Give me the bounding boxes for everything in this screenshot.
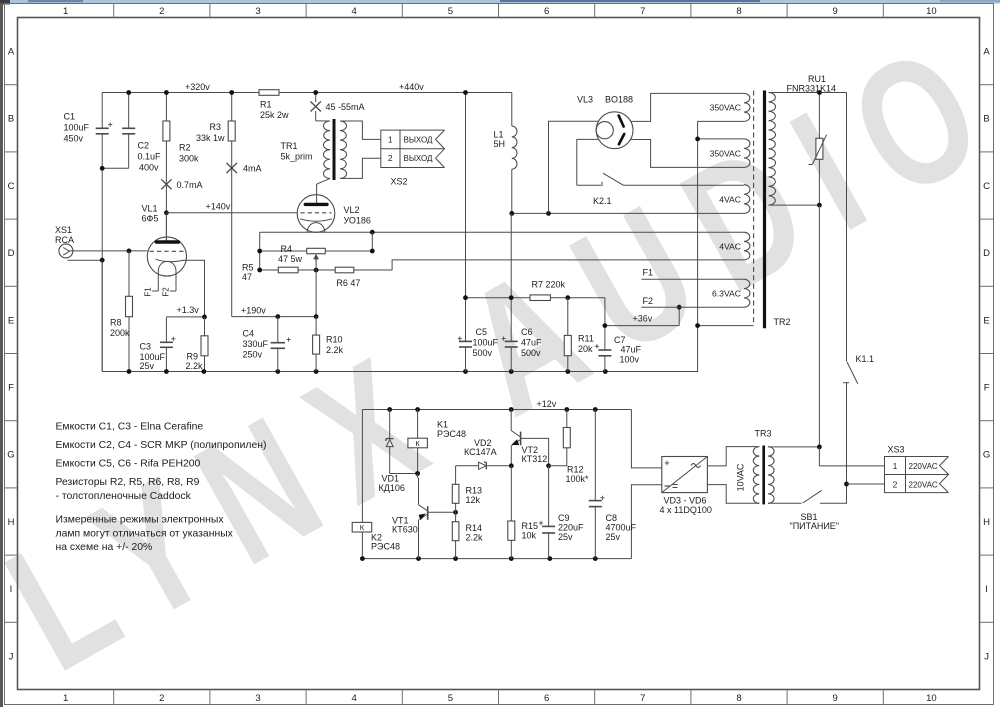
svg-text:VL3: VL3 bbox=[577, 95, 593, 105]
wire VL3 anode2 to 350VAC#2 bbox=[631, 140, 744, 168]
transformer TR2 winding 6.3VAC (6.3VAC heater) bbox=[744, 279, 750, 307]
window chrome strip bbox=[0, 0, 1000, 4]
switch K2.1 bbox=[577, 184, 601, 186]
svg-text:10k: 10k bbox=[522, 531, 537, 541]
diode VD1 bbox=[389, 410, 391, 439]
svg-text:7: 7 bbox=[640, 693, 645, 704]
svg-text:A: A bbox=[8, 47, 15, 58]
svg-text:+440v: +440v bbox=[399, 82, 424, 92]
svg-text:2.2k: 2.2k bbox=[466, 533, 484, 543]
svg-text:RU1: RU1 bbox=[808, 74, 826, 84]
svg-text:47 5w: 47 5w bbox=[278, 254, 303, 264]
svg-text:5H: 5H bbox=[494, 139, 506, 149]
svg-text:300k: 300k bbox=[179, 154, 199, 164]
svg-text:C2: C2 bbox=[138, 141, 150, 151]
wire +12v rail bbox=[362, 409, 631, 411]
resistor R3 bbox=[231, 93, 233, 122]
svg-text:5: 5 bbox=[448, 6, 453, 17]
svg-text:R12: R12 bbox=[567, 465, 584, 475]
svg-text:C1: C1 bbox=[64, 112, 76, 122]
svg-text:5k_prim: 5k_prim bbox=[281, 152, 313, 162]
svg-text:100uF: 100uF bbox=[64, 123, 90, 133]
connector XS3 bbox=[885, 457, 949, 493]
connector XS2 bbox=[381, 130, 445, 167]
svg-text:8: 8 bbox=[736, 6, 741, 17]
transformer TR2 winding 4VAC (4VAC output filament) bbox=[744, 232, 750, 260]
capacitor C3 bbox=[165, 317, 167, 342]
wire left HV column bbox=[101, 93, 103, 129]
resistor R13 bbox=[455, 466, 457, 485]
svg-text:1: 1 bbox=[63, 6, 68, 17]
svg-text:FNR331K14: FNR331K14 bbox=[787, 84, 837, 94]
svg-text:330uF: 330uF bbox=[243, 339, 269, 349]
wire +140v coupling to VL2 grid bbox=[166, 212, 297, 214]
svg-text:K1.1: K1.1 bbox=[856, 354, 875, 364]
svg-text:VD3 - VD6: VD3 - VD6 bbox=[664, 496, 707, 506]
switch SB1 bbox=[768, 502, 801, 504]
svg-text:R13: R13 bbox=[466, 486, 483, 496]
svg-text:7: 7 bbox=[640, 6, 645, 17]
capacitor C4 bbox=[277, 317, 279, 343]
svg-text:I: I bbox=[10, 584, 13, 595]
svg-text:C: C bbox=[8, 181, 15, 192]
transformer TR2 screen (dashed) bbox=[753, 91, 755, 323]
svg-text:3: 3 bbox=[255, 6, 260, 17]
svg-text:R8: R8 bbox=[110, 318, 122, 328]
wire TR3 secondary to rectifier bbox=[707, 447, 759, 466]
resistor R12 bbox=[566, 410, 568, 428]
svg-text:33k 1w: 33k 1w bbox=[196, 133, 225, 143]
wire VL3 anode1 to 350VAC#1 bbox=[631, 93, 744, 121]
resistor R11 bbox=[567, 298, 569, 336]
svg-text:РЭС48: РЭС48 bbox=[437, 429, 466, 439]
svg-text:6: 6 bbox=[544, 6, 549, 17]
capacitor C2 bbox=[128, 93, 130, 129]
wire VL2 cathode to R4 row bbox=[371, 232, 373, 251]
tube VL2 anode plate bbox=[305, 203, 327, 206]
svg-text:"ПИТАНИЕ": "ПИТАНИЕ" bbox=[790, 521, 840, 531]
wire network left leg bbox=[259, 232, 261, 270]
capacitor C1 bbox=[96, 127, 109, 129]
resistor R15 bbox=[510, 466, 512, 521]
resistor R8 bbox=[128, 251, 130, 296]
tube VL3 cathode circle bbox=[596, 122, 613, 139]
svg-text:B: B bbox=[8, 114, 14, 125]
svg-text:47uF: 47uF bbox=[621, 345, 642, 355]
svg-text:BO188: BO188 bbox=[605, 95, 633, 105]
resistor R7 bbox=[530, 295, 550, 301]
svg-text:+140v: +140v bbox=[206, 202, 231, 212]
svg-text:25v: 25v bbox=[606, 532, 621, 542]
svg-text:6Ф5: 6Ф5 bbox=[142, 214, 159, 224]
svg-text:9: 9 bbox=[833, 6, 838, 17]
tube VL2 envelope bbox=[297, 195, 335, 233]
svg-text:C3: C3 bbox=[140, 342, 152, 352]
svg-text:2: 2 bbox=[159, 693, 164, 704]
svg-text:F1: F1 bbox=[144, 287, 153, 297]
transformer TR3 core bbox=[762, 446, 765, 505]
svg-text:TR1: TR1 bbox=[281, 141, 298, 151]
tube VL1 anode plate bbox=[156, 240, 178, 243]
svg-text:Измеренные режимы электронных: Измеренные режимы электронных bbox=[56, 515, 225, 526]
svg-text:H: H bbox=[983, 517, 990, 528]
svg-text:RCA: RCA bbox=[55, 235, 74, 245]
svg-text:К: К bbox=[415, 439, 420, 448]
capacitor C6 bbox=[510, 298, 512, 342]
svg-text:K1: K1 bbox=[437, 420, 448, 430]
svg-text:350VAC: 350VAC bbox=[710, 148, 741, 158]
svg-text:+190v: +190v bbox=[241, 306, 266, 316]
svg-text:400v: 400v bbox=[139, 163, 159, 173]
wire control bottom rail bbox=[362, 558, 631, 560]
tube VL3 anode 2 bbox=[619, 134, 624, 144]
svg-text:R4: R4 bbox=[281, 244, 293, 254]
rectifier VD3-VD6 bbox=[662, 457, 708, 493]
svg-text:10: 10 bbox=[926, 6, 937, 17]
tube VL2 cathode arc bbox=[300, 219, 332, 221]
svg-text:К: К bbox=[360, 523, 365, 532]
svg-text:на схеме на +/- 20%: на схеме на +/- 20% bbox=[56, 542, 153, 553]
svg-text:2: 2 bbox=[388, 153, 393, 163]
varistor RU1 bbox=[818, 93, 820, 139]
relay coil K2 bbox=[352, 522, 372, 532]
svg-text:XS2: XS2 bbox=[391, 177, 408, 187]
svg-text:12k: 12k bbox=[466, 495, 481, 505]
svg-text:20k: 20k bbox=[578, 344, 593, 354]
svg-text:47: 47 bbox=[242, 272, 252, 282]
relay coil K1 bbox=[417, 410, 419, 439]
wire VL1 grid lead bbox=[70, 250, 148, 252]
svg-text:ВЫХОД: ВЫХОД bbox=[404, 154, 434, 163]
test point 4mA bbox=[227, 163, 237, 173]
svg-text:J: J bbox=[9, 651, 14, 662]
svg-text:D: D bbox=[8, 248, 15, 259]
svg-text:R5: R5 bbox=[242, 263, 254, 273]
resistor R2 bbox=[165, 93, 167, 122]
wire heater elevation F2 branch bbox=[678, 307, 680, 325]
svg-text:K2.1: K2.1 bbox=[593, 196, 612, 206]
svg-text:A: A bbox=[983, 47, 990, 58]
wire mains line A (XS3 pin1) bbox=[818, 205, 820, 447]
svg-text:F: F bbox=[8, 383, 14, 394]
wire 350VAC#1 bottom to CT bbox=[698, 121, 744, 372]
svg-text:КД106: КД106 bbox=[379, 483, 405, 493]
svg-text:F1: F1 bbox=[643, 268, 654, 278]
svg-text:250v: 250v bbox=[243, 350, 263, 360]
svg-text:F: F bbox=[984, 383, 990, 394]
svg-text:КС147А: КС147А bbox=[464, 447, 497, 457]
resistor R9 bbox=[204, 317, 206, 336]
svg-text:450v: 450v bbox=[64, 134, 84, 144]
svg-text:VD1: VD1 bbox=[382, 474, 400, 484]
svg-text:R3: R3 bbox=[209, 122, 221, 132]
svg-text:25v: 25v bbox=[558, 532, 573, 542]
transformer TR2 core bbox=[763, 91, 766, 329]
connector XS1 RCA bbox=[59, 244, 73, 258]
transistor VT1 bbox=[417, 474, 419, 479]
resistor R6 bbox=[335, 267, 354, 273]
wire VT2 base bbox=[521, 438, 549, 465]
svg-text:220uF: 220uF bbox=[558, 523, 584, 533]
svg-text:F2: F2 bbox=[643, 296, 654, 306]
capacitor C5 bbox=[465, 298, 467, 342]
capacitor C8 bbox=[594, 410, 596, 501]
transformer TR2 winding 350VAC (350VAC lower) bbox=[744, 139, 750, 168]
tube VL2 filament bbox=[307, 223, 325, 233]
svg-text:47uF: 47uF bbox=[521, 337, 542, 347]
svg-text:B: B bbox=[983, 114, 989, 125]
svg-text:C4: C4 bbox=[243, 329, 255, 339]
wire R4 wiper to +190v bbox=[315, 259, 317, 317]
svg-text:ВЫХОД: ВЫХОД bbox=[404, 136, 434, 145]
wire C6 column bbox=[510, 213, 512, 297]
svg-text:КТ630: КТ630 bbox=[392, 525, 418, 535]
svg-text:5: 5 bbox=[448, 693, 453, 704]
left window edge bbox=[0, 3, 3, 707]
svg-text:G: G bbox=[983, 450, 990, 461]
svg-text:C5: C5 bbox=[476, 327, 488, 337]
svg-text:R11: R11 bbox=[578, 334, 594, 344]
svg-text:2.2k: 2.2k bbox=[186, 361, 204, 371]
wire control left leg bbox=[361, 410, 363, 559]
svg-text:6.3VAC: 6.3VAC bbox=[712, 288, 741, 298]
svg-text:H: H bbox=[8, 517, 15, 528]
svg-text:КТ312: КТ312 bbox=[522, 454, 548, 464]
svg-text:4700uF: 4700uF bbox=[606, 523, 637, 533]
svg-text:J: J bbox=[984, 651, 989, 662]
wire +190v bbox=[232, 316, 316, 318]
tube VL1 envelope bbox=[147, 237, 186, 276]
svg-text:3: 3 bbox=[255, 693, 260, 704]
svg-text:TR2: TR2 bbox=[774, 317, 791, 327]
inductor L1 bbox=[511, 93, 513, 127]
svg-text:VL2: VL2 bbox=[344, 205, 360, 215]
svg-text:+1.3v: +1.3v bbox=[177, 305, 200, 315]
potentiometer R4 bbox=[260, 250, 307, 252]
wire R7 row bbox=[466, 297, 531, 299]
resistor R10 bbox=[315, 317, 317, 336]
transformer TR2 primary bbox=[769, 93, 776, 206]
svg-text:+12v: +12v bbox=[537, 399, 557, 409]
svg-text:9: 9 bbox=[833, 693, 838, 704]
svg-text:R10: R10 bbox=[326, 335, 343, 345]
svg-text:220VAC: 220VAC bbox=[909, 462, 938, 471]
svg-text:R14: R14 bbox=[466, 523, 483, 533]
transformer TR1 primary bbox=[316, 120, 330, 122]
wire VL2 cathode bus bbox=[260, 231, 744, 233]
transformer TR1 secondary bbox=[340, 121, 347, 178]
svg-text:R15: R15 bbox=[522, 521, 539, 531]
svg-text:R6 47: R6 47 bbox=[336, 278, 360, 288]
svg-text:+36v: +36v bbox=[633, 314, 653, 324]
wire VL1 anode to +140v node bbox=[165, 213, 167, 241]
svg-text:100uF: 100uF bbox=[473, 337, 499, 347]
svg-text:2.2k: 2.2k bbox=[326, 345, 344, 355]
svg-text:220VAC: 220VAC bbox=[909, 480, 938, 489]
svg-text:8: 8 bbox=[736, 693, 741, 704]
test point 0.7mA bbox=[161, 179, 171, 189]
svg-text:D: D bbox=[983, 248, 990, 259]
svg-text:1: 1 bbox=[893, 461, 898, 471]
wire XS1 shell bbox=[68, 259, 103, 261]
svg-text:Емкости C5, C6 - Rifa PEH200: Емкости C5, C6 - Rifa PEH200 bbox=[56, 458, 201, 469]
wire TR1 primary bottom to VL2 anode bbox=[317, 178, 330, 203]
svg-text:500v: 500v bbox=[521, 348, 541, 358]
tube VL1 filament bbox=[158, 261, 176, 271]
transistor VT2 bbox=[510, 410, 512, 431]
svg-text:100v: 100v bbox=[620, 355, 640, 365]
svg-text:Резисторы R2, R5, R6, R8, R9: Резисторы R2, R5, R6, R8, R9 bbox=[56, 477, 200, 488]
svg-text:350VAC: 350VAC bbox=[710, 103, 741, 113]
wire TR3 primary top bbox=[768, 446, 819, 448]
wire +440 feed column bbox=[465, 93, 467, 298]
wire VL1 cathode lead bbox=[184, 260, 205, 317]
svg-text:R2: R2 bbox=[179, 143, 191, 153]
svg-text:C7: C7 bbox=[614, 335, 626, 345]
svg-text:G: G bbox=[7, 450, 14, 461]
svg-text:0.1uF: 0.1uF bbox=[138, 152, 162, 162]
tube VL3 envelope bbox=[596, 112, 633, 149]
svg-text:2: 2 bbox=[159, 6, 164, 17]
svg-text:25k 2w: 25k 2w bbox=[260, 110, 289, 120]
svg-text:4: 4 bbox=[352, 693, 357, 704]
svg-text:10VAC: 10VAC bbox=[736, 463, 746, 491]
svg-text:ламп могут отличаться от указа: ламп могут отличаться от указанных bbox=[56, 529, 234, 540]
svg-text:F2: F2 bbox=[161, 287, 170, 297]
svg-text:200k: 200k bbox=[110, 328, 130, 338]
svg-text:Емкости C1, C3 - Elna Cerafine: Емкости C1, C3 - Elna Cerafine bbox=[56, 422, 204, 433]
svg-text:E: E bbox=[983, 315, 989, 326]
svg-text:+320v: +320v bbox=[185, 82, 210, 92]
svg-text:4 x 11DQ100: 4 x 11DQ100 bbox=[660, 505, 712, 515]
svg-text:1: 1 bbox=[388, 135, 393, 145]
svg-text:6: 6 bbox=[544, 693, 549, 704]
wire 350VAC#2 top (CT) bbox=[698, 138, 744, 140]
svg-text:- толстопленочные Caddock: - толстопленочные Caddock bbox=[56, 491, 192, 502]
svg-text:C6: C6 bbox=[521, 327, 533, 337]
svg-text:TR3: TR3 bbox=[755, 429, 772, 439]
test point 45-55mA bbox=[315, 93, 317, 103]
svg-text:Емкости C2, C4 - SCR MKP (поли: Емкости C2, C4 - SCR MKP (полипропилен) bbox=[56, 440, 267, 451]
wire rectifier + to +12v rail bbox=[631, 410, 661, 468]
svg-text:25v: 25v bbox=[140, 361, 155, 371]
tube VL3 anode 1 bbox=[619, 116, 624, 127]
capacitor C9 bbox=[548, 466, 550, 527]
wire +320v/+440v top bus bbox=[102, 92, 259, 94]
tube VL1 grid (dashed) bbox=[150, 250, 185, 252]
svg-text:РЭС48: РЭС48 bbox=[371, 542, 400, 552]
svg-text:4VAC: 4VAC bbox=[719, 194, 741, 204]
tube VL1 cathode arc bbox=[156, 259, 184, 261]
wire 4VAC top (to K2.1) is drawn above bbox=[743, 184, 745, 187]
svg-text:XS3: XS3 bbox=[888, 445, 905, 455]
transformer TR2 winding 350VAC (350VAC upper) bbox=[744, 93, 750, 121]
wire +1.3v bbox=[166, 316, 204, 318]
svg-text:VL1: VL1 bbox=[142, 204, 158, 214]
svg-text:4: 4 bbox=[352, 6, 357, 17]
svg-text:100k*: 100k* bbox=[566, 474, 590, 484]
svg-text:L1: L1 bbox=[494, 130, 504, 140]
transformer TR2 winding 4VAC (4VAC rectifier filament) bbox=[744, 185, 750, 214]
svg-text:C9: C9 bbox=[558, 513, 570, 523]
svg-text:R1: R1 bbox=[260, 100, 272, 110]
wire VL3 cathode output bbox=[549, 121, 599, 213]
zener diode VD2 bbox=[456, 465, 479, 467]
wire R5/R6 return (4VAC lower) bbox=[392, 260, 744, 270]
svg-text:R9: R9 bbox=[187, 352, 199, 362]
svg-text:500v: 500v bbox=[473, 348, 493, 358]
capacitor C7 bbox=[604, 298, 606, 350]
resistor R14 bbox=[452, 522, 459, 541]
svg-text:0.7mA: 0.7mA bbox=[177, 180, 203, 190]
wire rectifier - to 0V rail bbox=[631, 485, 661, 559]
svg-text:E: E bbox=[8, 315, 14, 326]
wire 0V rail bbox=[102, 371, 697, 373]
wire TR2 screen to 0V bbox=[698, 325, 754, 327]
resistor R1 (inline in bus) bbox=[259, 90, 279, 96]
svg-text:R7 220k: R7 220k bbox=[532, 280, 566, 290]
svg-text:C: C bbox=[983, 181, 990, 192]
switch K1.1 bbox=[846, 93, 848, 362]
svg-text:1: 1 bbox=[63, 693, 68, 704]
tube VL2 grid (dashed) bbox=[301, 212, 332, 214]
svg-text:45 -55mA: 45 -55mA bbox=[326, 102, 365, 112]
svg-text:I: I bbox=[985, 584, 988, 595]
svg-text:XS1: XS1 bbox=[55, 225, 72, 235]
svg-text:4mA: 4mA bbox=[243, 164, 262, 174]
svg-text:2: 2 bbox=[893, 479, 898, 489]
wire VL3 filament return bbox=[577, 139, 599, 185]
svg-text:4VAC: 4VAC bbox=[719, 241, 741, 251]
transformer TR1 core bbox=[333, 119, 336, 180]
resistor R5 bbox=[260, 269, 279, 271]
svg-text:C8: C8 bbox=[606, 513, 618, 523]
svg-text:УО186: УО186 bbox=[344, 216, 371, 226]
wire rectifier output line bbox=[512, 212, 744, 214]
svg-text:10: 10 bbox=[926, 693, 937, 704]
